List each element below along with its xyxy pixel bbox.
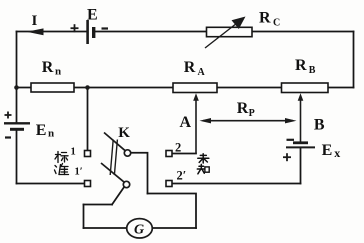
- svg-text:G: G: [134, 223, 144, 238]
- terminal 1: [85, 151, 91, 157]
- galvanometer G: [127, 219, 153, 238]
- wire bottom left horizontal to terminal 1': [17, 183, 85, 185]
- wire top right segment: [252, 31, 354, 33]
- svg-text:n: n: [55, 66, 61, 78]
- battery E: [71, 7, 109, 45]
- svg-text:B: B: [309, 65, 316, 76]
- wire top left segment: [17, 31, 87, 33]
- svg-text:x: x: [334, 146, 340, 160]
- svg-text:R: R: [295, 57, 307, 74]
- svg-text:E: E: [322, 142, 333, 159]
- wire left vertical lower: [16, 131, 18, 184]
- wire Rn row: Rn to RA: [74, 87, 173, 89]
- label zhi (unknown 2nd char): [197, 164, 209, 173]
- svg-text:2: 2: [175, 141, 181, 155]
- switch K: [101, 133, 131, 188]
- slider arrow B: [298, 93, 325, 141]
- wire junction to terminal 1: [87, 88, 89, 151]
- svg-text:P: P: [249, 108, 255, 119]
- current arrow I: [27, 13, 44, 35]
- wire galvanometer right riser: [148, 194, 197, 229]
- wire left vertical: [16, 32, 18, 123]
- slider arrow A: [180, 93, 199, 153]
- wire galvanometer bottom: [84, 227, 197, 229]
- svg-text:R: R: [237, 100, 249, 117]
- label wei (unknown): [198, 154, 209, 163]
- wire right vertical: [353, 32, 355, 88]
- measure RP double arrow: [200, 100, 297, 123]
- wire Rn row: left stub: [17, 87, 32, 89]
- wire terminal 2 to A slider: [172, 153, 196, 155]
- svg-text:A: A: [198, 67, 206, 78]
- wire Rn row: RA to RB: [217, 87, 282, 89]
- svg-text:B: B: [314, 116, 325, 133]
- junction node at left vertical and Rn row: [14, 85, 19, 90]
- svg-text:1′: 1′: [75, 167, 83, 178]
- svg-text:R: R: [184, 59, 196, 76]
- svg-text:E: E: [36, 122, 47, 139]
- terminal 1': [85, 181, 91, 187]
- wire switch upper pivot to right: [131, 153, 148, 194]
- svg-text:A: A: [180, 114, 192, 131]
- svg-text:1: 1: [71, 147, 76, 158]
- wire galvanometer left top edge: [84, 204, 113, 206]
- wire top middle segment: [96, 31, 207, 33]
- svg-text:I: I: [32, 13, 38, 29]
- resistor RA: [173, 59, 217, 93]
- resistor RB: [282, 57, 329, 92]
- rheostat RC: [205, 10, 280, 49]
- battery En: [4, 112, 54, 140]
- svg-text:R: R: [259, 10, 271, 27]
- wire Ex battery down: [300, 148, 302, 183]
- svg-text:C: C: [273, 18, 280, 29]
- svg-text:R: R: [42, 59, 54, 76]
- label zhun (standard 2nd char): [55, 164, 69, 175]
- battery Ex: [283, 140, 340, 161]
- svg-text:K: K: [118, 125, 130, 141]
- terminal 2: [166, 151, 172, 157]
- wire galvanometer left vertical: [83, 205, 85, 229]
- label biao (standard): [55, 152, 68, 163]
- terminal 2': [166, 181, 172, 187]
- resistor Rn: [31, 59, 74, 92]
- wire Rn row: RB to right vertical: [328, 87, 354, 89]
- wire terminal 2' to Ex battery: [172, 183, 301, 185]
- wire switch lower pivot diagonal: [112, 187, 124, 205]
- svg-text:2′: 2′: [177, 169, 187, 183]
- svg-text:n: n: [48, 128, 54, 140]
- svg-text:E: E: [87, 7, 98, 24]
- junction node at Rn row and terminal 1 wire: [85, 85, 90, 90]
